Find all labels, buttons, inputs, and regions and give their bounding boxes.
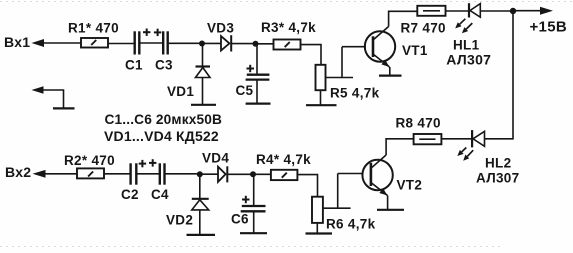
wire Bx1 to R1: [43, 42, 81, 44]
wire R6 side to base riser VT2: [323, 174, 351, 209]
node E junction dot: [250, 171, 256, 177]
wire VD2 to ground: [199, 210, 201, 235]
diode VD1: [167, 67, 210, 100]
resistor R7: [401, 6, 446, 36]
svg-text:C3: C3: [155, 58, 173, 73]
wire VT2 emitter to ground: [387, 196, 389, 210]
polarity plus signs C2 C4: [139, 159, 157, 167]
wire VD1 to ground: [202, 78, 204, 105]
+15V arrow: [540, 7, 553, 15]
svg-text:C4: C4: [151, 187, 169, 202]
wire C1 to C3: [139, 42, 163, 44]
resistor R4: [256, 152, 311, 180]
wire node B down to C5: [256, 44, 258, 74]
node A junction dot: [199, 41, 205, 47]
svg-text:R6 4,7k: R6 4,7k: [326, 216, 376, 231]
ground of VT1 emitter: [379, 74, 402, 76]
common ground arrow symbol: [32, 86, 75, 108]
wire node B to R3: [256, 43, 274, 45]
node B junction dot: [253, 41, 259, 47]
svg-text:R5 4,7k: R5 4,7k: [330, 86, 380, 101]
wire R7 to HL1: [446, 10, 470, 12]
wire HL1 to node C: [480, 10, 513, 12]
svg-text:R1* 470: R1* 470: [68, 20, 119, 35]
resistor R6: [312, 197, 376, 232]
svg-text:HL1: HL1: [453, 38, 480, 53]
wire R5 side to base riser: [326, 47, 354, 78]
wire C2 to C4: [136, 173, 160, 175]
svg-text:Вх1: Вх1: [4, 34, 30, 50]
resistor R2: [64, 153, 115, 178]
transistor VT2: [362, 155, 422, 196]
svg-text:R4* 4,7k: R4* 4,7k: [256, 152, 311, 167]
wire VD3 to node B: [231, 43, 255, 45]
wire R5 to ground: [320, 90, 322, 105]
ground of R6: [306, 232, 333, 234]
wire R6 to ground: [316, 223, 318, 233]
svg-text:VD4: VD4: [202, 150, 229, 165]
wire R4 to corner above R6: [297, 175, 317, 197]
resistor R5: [316, 65, 380, 101]
svg-text:C2: C2: [121, 187, 139, 202]
node C junction dot: [510, 8, 516, 14]
wire R2 to C2: [104, 173, 130, 175]
capacitor C5: [236, 65, 270, 98]
svg-text:VD3: VD3: [207, 21, 234, 36]
wire R8 to HL2: [441, 138, 472, 140]
transistor VT1: [365, 27, 428, 68]
wire C6 to ground: [253, 211, 255, 232]
scan artifact dotted bottom border: [0, 246, 500, 248]
svg-text:VD2: VD2: [166, 213, 193, 228]
svg-text:HL2: HL2: [485, 155, 511, 170]
wire node A down to VD1: [202, 44, 204, 67]
wire +15V rail down to HL2: [485, 11, 514, 139]
svg-text:R3* 4,7k: R3* 4,7k: [261, 20, 316, 35]
wire VD4 to node E: [227, 173, 253, 175]
wire node D down to VD2: [199, 174, 201, 198]
LED HL1: [446, 3, 491, 67]
LED HL2: [457, 130, 519, 185]
capacitor C2: [121, 163, 139, 202]
svg-text:+15В: +15В: [530, 18, 567, 35]
wire C3 to node A: [168, 42, 202, 44]
svg-text:R8 470: R8 470: [396, 116, 441, 131]
svg-text:C5: C5: [236, 83, 254, 98]
wire C5 to ground: [256, 80, 258, 104]
diode VD2: [166, 199, 209, 228]
capacitor C4: [151, 163, 169, 202]
input arrow Bx2: [33, 170, 46, 178]
resistor R1: [68, 20, 119, 47]
wire VT1 emitter to ground: [389, 67, 391, 75]
svg-text:АЛ307: АЛ307: [476, 171, 519, 186]
input arrow Bx1: [32, 39, 45, 47]
wire base riser to VT2 base: [338, 173, 363, 175]
wire Bx2 to R2: [45, 173, 77, 175]
diode VD3: [207, 21, 234, 52]
ground of C5: [246, 102, 271, 104]
wire base riser to VT1 base: [342, 46, 366, 48]
capacitor C6: [231, 196, 266, 227]
svg-text:VT1: VT1: [402, 43, 428, 58]
wire VT2 collector up to R8 rail: [386, 139, 414, 155]
ground of R5: [306, 104, 337, 106]
svg-text:C1: C1: [125, 58, 143, 73]
diode VD4: [202, 150, 229, 182]
svg-text:C6: C6: [231, 212, 249, 227]
node D junction dot: [197, 171, 203, 177]
capacitor C1: [125, 31, 143, 72]
wire node E down to C6: [253, 174, 255, 205]
ground of VT2 emitter: [377, 209, 404, 211]
wire node D to VD4: [200, 173, 218, 175]
polarity plus signs C1 C3: [143, 29, 161, 37]
wire R3 to corner above R5: [301, 45, 322, 65]
resistor R3: [261, 20, 316, 50]
svg-text:VT2: VT2: [397, 177, 423, 192]
svg-text:Вх2: Вх2: [5, 164, 31, 180]
capacitor C3: [155, 31, 173, 72]
ground of C6: [240, 232, 267, 234]
wire R1 to C1: [108, 43, 134, 45]
svg-text:VD1: VD1: [167, 84, 194, 99]
scan artifact dotted top border: [0, 1, 573, 3]
svg-text:R2* 470: R2* 470: [64, 153, 115, 168]
wire VT1 collector up to rail: [389, 11, 418, 26]
wire node C to +15V arrow: [513, 10, 541, 12]
ground of VD2: [187, 234, 216, 236]
svg-text:R7 470: R7 470: [401, 21, 446, 36]
svg-text:АЛ307: АЛ307: [446, 52, 491, 68]
resistor R8: [396, 116, 442, 145]
svg-text:С1...С6 20мкх50В: С1...С6 20мкх50В: [105, 112, 223, 127]
ground of VD1: [191, 104, 216, 106]
wire node E to R4: [253, 173, 271, 175]
wire node A to VD3: [202, 42, 221, 44]
svg-text:VD1...VD4 КД522: VD1...VD4 КД522: [104, 128, 219, 144]
wire C4 to node D: [165, 173, 200, 175]
